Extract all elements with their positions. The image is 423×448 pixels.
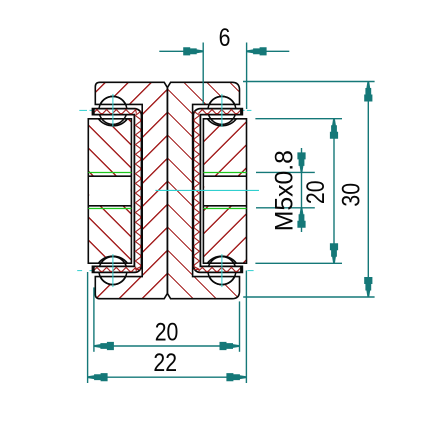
svg-text:20: 20 (155, 318, 179, 346)
dim M5x0.8 extension lines (256, 171, 315, 173)
left race zigzag hatch top flange (93, 110, 136, 114)
left race zigzag hatch bottom flange (93, 267, 136, 271)
ball B2 vertical centerline (221, 94, 223, 127)
hatch right rail piece (herringbone \ lines) (0, 75, 423, 305)
ball B3 (bottom-left) (99, 257, 127, 285)
hatch left rail piece (herringbone / lines) (0, 75, 423, 305)
right race zigzag hatch top flange (198, 110, 241, 114)
tapped hole bore (white) right block (204, 176, 245, 206)
outer rail right piece outline (167, 82, 239, 298)
left race zigzag hatch web (135, 112, 140, 270)
right race zigzag hatch web (194, 112, 199, 270)
tapped hole bore (white) left block (89, 176, 130, 206)
dim 22 extension lines (87, 272, 89, 383)
ball groove in right block (bottom) (207, 256, 236, 263)
ball seat in bottom cap right (209, 277, 234, 285)
right block outline (203, 119, 246, 263)
ball B1 (top-left) (99, 96, 127, 124)
ball B4 (bottom-right) (208, 257, 236, 285)
svg-text:M5x0.8: M5x0.8 (271, 150, 299, 231)
ball groove in left block (top) (98, 119, 127, 126)
race end caps (thick bars) (92, 108, 95, 115)
ball B4 vertical centerline (221, 254, 223, 287)
left bent-sheet race (cross-hatched strip) (93, 109, 142, 273)
svg-text:22: 22 (153, 348, 177, 376)
svg-text:30: 30 (337, 183, 365, 207)
thread major dia lines (green) right block (203, 172, 246, 174)
left block outline (88, 119, 131, 263)
thread major dia lines (green) left block (88, 172, 131, 174)
hole centerline (cyan) (155, 189, 259, 191)
ball B3 vertical centerline (112, 254, 114, 287)
outer rail left piece outline (95, 82, 167, 298)
ball groove in right block (top) (207, 119, 236, 126)
hatch right block (/ lines) (0, 75, 423, 305)
dim 20 bottom extension lines (93, 287, 95, 351)
ball B1 horizontal centerline (79, 109, 87, 111)
ball B3 horizontal centerline (77, 270, 82, 272)
ball groove in left block (bottom) (98, 256, 127, 263)
ball seat in bottom cap left (100, 277, 125, 285)
dim 6 dimension line + arrows (159, 50, 203, 52)
dim 20 right extension lines (255, 118, 342, 120)
hatch left block (\ lines) (0, 75, 423, 305)
ball B1 vertical centerline (112, 94, 114, 127)
ball seat in top cap right (209, 96, 234, 104)
svg-text:20: 20 (301, 180, 329, 204)
ball B4 horizontal centerline (195, 270, 243, 272)
dim 30 extension lines (243, 81, 375, 83)
ball B2 horizontal centerline (195, 109, 244, 111)
dim 30 dimension line + arrows (367, 82, 369, 298)
dim 20 bottom dimension line + arrows (94, 345, 240, 347)
ball B2 (top-right) (208, 96, 236, 124)
dim 6 extension lines (202, 43, 204, 105)
right race zigzag hatch bottom flange (198, 267, 241, 271)
ball seat in top cap left (100, 96, 125, 104)
dim 20 right dimension line + arrows (333, 119, 335, 264)
svg-text:6: 6 (219, 23, 231, 51)
dim 22 dimension line + arrows (88, 376, 247, 378)
right bent-sheet race (cross-hatched strip) (193, 109, 242, 273)
dim M5x0.8 dimension line + arrows (301, 148, 303, 232)
